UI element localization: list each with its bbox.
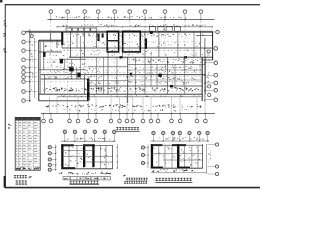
main plan bottom interior dense text band — [43, 87, 199, 91]
main plan left dimension text — [31, 44, 34, 92]
main plan bottom dimension line — [41, 113, 215, 114]
right small plan right axis — [207, 143, 219, 176]
left small plan walls — [61, 144, 112, 169]
main plan lower-middle room walls — [88, 57, 202, 94]
main plan bottom extension lines — [49, 97, 205, 114]
right small plan left axis bubbles — [141, 145, 149, 169]
main plan axis grid dashed lines — [31, 21, 203, 94]
page background — [0, 0, 260, 194]
left small plan top dimension line — [61, 141, 116, 142]
right small plan bottom dimension row — [151, 169, 206, 172]
left small plan caption — [70, 181, 100, 185]
main plan left dimension line — [29, 30, 35, 103]
left margin binding text — [3, 20, 11, 129]
main plan top axis bubbles — [49, 10, 203, 14]
section heading text — [116, 127, 140, 131]
main plan top wall window bumps — [66, 26, 181, 31]
drawing frame border — [0, 0, 260, 188]
left small plan bottom dimension rows — [59, 172, 111, 175]
left small plan left axis bubbles — [48, 145, 56, 172]
schedule table dark footer row — [16, 167, 40, 170]
main plan right axis bubbles — [206, 30, 219, 101]
schedule table cell text — [16, 122, 38, 169]
main plan interior horizontal walls — [39, 48, 213, 86]
main plan shear wall dark blocks — [87, 32, 187, 101]
main plan bottom axis bubbles — [42, 114, 208, 123]
table caption line 2 — [16, 181, 28, 185]
schedule table — [15, 117, 40, 170]
right small plan top axis bubbles — [152, 131, 210, 141]
main plan top axis stems — [51, 13, 201, 20]
main plan top dimension line 2 — [56, 24, 213, 27]
left small plan right dimension line — [117, 144, 118, 169]
main plan top-left interior walls — [43, 33, 81, 79]
right small plan interior text — [153, 147, 199, 166]
right small plan top dimension line — [151, 140, 210, 141]
main plan bottom dimension text rows — [46, 104, 202, 111]
main plan stair-elevator core rooms — [97, 31, 147, 52]
main plan right dimension text — [207, 51, 210, 93]
main plan outer walls — [25, 31, 212, 101]
left small plan interior text — [65, 147, 109, 166]
left small plan top axis bubbles — [63, 130, 116, 141]
axis J end bubble — [30, 33, 33, 38]
notes text block — [123, 175, 147, 184]
main plan top dimension line 1 — [48, 16, 215, 20]
main plan interior text speckle — [45, 33, 208, 97]
left small plan legend strip — [63, 177, 111, 180]
table caption line 1 — [14, 175, 32, 178]
right small plan caption — [155, 178, 192, 183]
main plan left axis stems — [25, 33, 30, 101]
main plan interior vertical walls — [45, 32, 206, 104]
main plan left axis bubbles — [22, 31, 26, 102]
main plan right dimension line — [204, 38, 205, 102]
right small plan walls — [151, 144, 203, 168]
left small plan top dimension text — [67, 137, 110, 140]
right small plan top dimension text — [159, 137, 204, 140]
